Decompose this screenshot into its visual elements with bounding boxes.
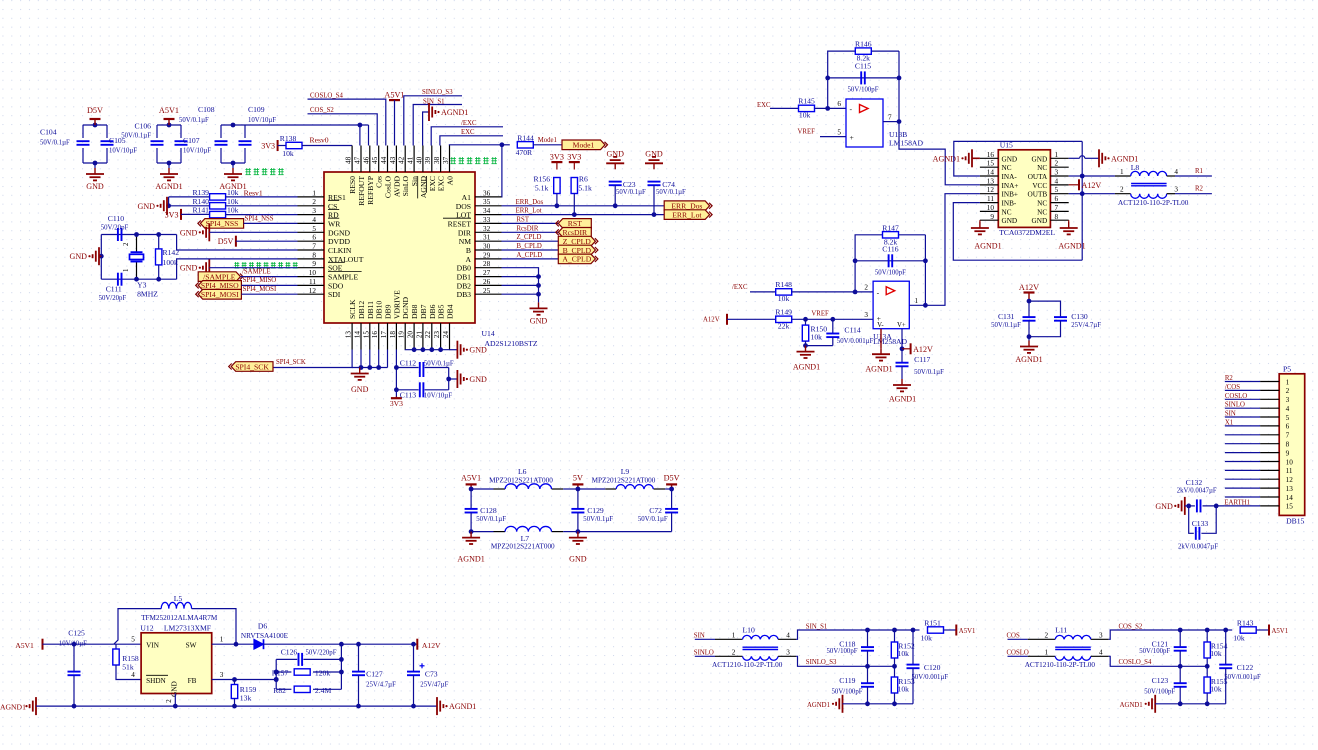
wire pin1 GND with hop bbox=[1069, 157, 1080, 159]
wire row3 bbox=[181, 213, 210, 215]
svg-text:34: 34 bbox=[483, 207, 491, 215]
wire bbox=[894, 630, 896, 642]
wire bbox=[578, 531, 672, 533]
svg-text:B_CPLD: B_CPLD bbox=[563, 246, 592, 255]
resistor R142 bbox=[156, 249, 162, 265]
L8 core bbox=[1131, 183, 1167, 185]
capacitor C109 bbox=[239, 140, 252, 142]
wire Resv0 net bbox=[302, 145, 352, 147]
svg-text:R2: R2 bbox=[1225, 375, 1234, 382]
junction bbox=[134, 232, 139, 237]
wire xtal top rail bbox=[101, 234, 176, 236]
svg-text:25: 25 bbox=[483, 287, 491, 295]
port flag RcsDIR bbox=[558, 228, 591, 238]
svg-text:COSLO_S4: COSLO_S4 bbox=[310, 93, 343, 100]
svg-text:10k: 10k bbox=[1210, 649, 1222, 658]
svg-text:7: 7 bbox=[1055, 204, 1059, 212]
svg-text:C104: C104 bbox=[40, 128, 57, 137]
junction bbox=[232, 677, 237, 682]
svg-text:GND: GND bbox=[180, 264, 198, 273]
wire L5 left bbox=[114, 609, 161, 645]
junction bbox=[394, 387, 399, 392]
U14 pin stubs right bbox=[475, 196, 502, 198]
svg-text:18: 18 bbox=[389, 331, 397, 339]
svg-text:12: 12 bbox=[309, 287, 317, 295]
wire bbox=[168, 163, 170, 168]
svg-text:ERR_Lot: ERR_Lot bbox=[672, 210, 702, 219]
svg-text:SPI4_SCK: SPI4_SCK bbox=[235, 362, 269, 371]
wire bbox=[695, 655, 715, 657]
wire bbox=[1206, 630, 1208, 642]
svg-text:50V/100pF: 50V/100pF bbox=[832, 688, 863, 695]
ground GND bottom bus bbox=[359, 368, 361, 374]
svg-text:12: 12 bbox=[1286, 476, 1294, 484]
wire bbox=[156, 148, 158, 163]
wire bbox=[232, 163, 234, 168]
svg-text:A0: A0 bbox=[446, 176, 455, 186]
svg-text:C108: C108 bbox=[198, 105, 215, 114]
junction bbox=[274, 677, 279, 682]
ground GND C74 bbox=[653, 163, 655, 169]
wire bbox=[313, 671, 341, 673]
junction bbox=[865, 628, 870, 633]
resistor R152 bbox=[891, 642, 897, 658]
junction bbox=[356, 704, 361, 709]
power A12V V+ bbox=[910, 343, 912, 354]
svg-text:50V/0.001µF: 50V/0.001µF bbox=[1224, 674, 1261, 681]
svg-text:R145: R145 bbox=[798, 97, 815, 106]
svg-text:C117: C117 bbox=[914, 355, 930, 364]
svg-text:2: 2 bbox=[864, 284, 868, 292]
ground GND (rows1-2) bbox=[166, 197, 168, 215]
junction bbox=[1178, 628, 1183, 633]
svg-text:L9: L9 bbox=[621, 467, 630, 476]
svg-text:AGND1: AGND1 bbox=[1058, 242, 1085, 251]
wire C116 row bbox=[855, 260, 925, 262]
wire bbox=[241, 284, 297, 286]
svg-text:15: 15 bbox=[1286, 503, 1294, 511]
resistor R156 bbox=[554, 178, 560, 194]
svg-text:SPI4_MISO: SPI4_MISO bbox=[243, 277, 277, 284]
svg-text:Cos: Cos bbox=[375, 176, 384, 188]
wire bbox=[653, 185, 655, 214]
svg-text:28: 28 bbox=[483, 260, 491, 268]
resistor R150 bbox=[802, 325, 808, 341]
svg-text:D5V: D5V bbox=[218, 237, 234, 246]
svg-text:R151: R151 bbox=[924, 619, 941, 628]
svg-text:GND: GND bbox=[1002, 155, 1018, 163]
svg-text:50V/0.1µF: 50V/0.1µF bbox=[914, 369, 944, 376]
capacitor C111 bbox=[117, 273, 119, 286]
svg-text:45: 45 bbox=[371, 156, 379, 164]
svg-text:9: 9 bbox=[990, 213, 994, 221]
svg-text:AGND1: AGND1 bbox=[793, 363, 820, 372]
junction bbox=[853, 258, 858, 263]
svg-text:INB+: INB+ bbox=[1002, 191, 1019, 199]
svg-text:EXC: EXC bbox=[428, 176, 437, 191]
svg-text:5.1k: 5.1k bbox=[578, 184, 592, 193]
svg-text:50V/20pF: 50V/20pF bbox=[99, 295, 127, 302]
wire bbox=[1207, 629, 1226, 631]
wire feedback top U13A bbox=[855, 235, 925, 292]
junction bbox=[1205, 701, 1210, 706]
green annotation fen-bian-lv-she-zhi bbox=[245, 168, 251, 170]
svg-text:AGND1: AGND1 bbox=[933, 154, 960, 163]
wire bbox=[425, 389, 449, 391]
svg-text:DB7: DB7 bbox=[419, 304, 428, 319]
wire bbox=[1256, 629, 1269, 631]
svg-text:RESET: RESET bbox=[448, 219, 472, 228]
svg-text:INA+: INA+ bbox=[1002, 182, 1019, 190]
wire bbox=[577, 489, 579, 509]
svg-text:23: 23 bbox=[433, 331, 441, 339]
junction bbox=[1186, 504, 1191, 509]
svg-text:C72: C72 bbox=[649, 506, 662, 515]
svg-text:10k: 10k bbox=[921, 634, 933, 643]
junction bbox=[134, 277, 139, 282]
wire to S1 bbox=[1109, 630, 1208, 639]
power A12V bar bbox=[726, 314, 728, 325]
svg-text:SINLO_S3: SINLO_S3 bbox=[422, 89, 453, 96]
svg-text:ACT1210-110-2P-TL00: ACT1210-110-2P-TL00 bbox=[1025, 661, 1096, 669]
svg-text:4: 4 bbox=[1099, 649, 1103, 657]
svg-text:10k: 10k bbox=[898, 685, 910, 694]
svg-text:2: 2 bbox=[312, 198, 316, 206]
power A5V1 filter bbox=[466, 483, 477, 485]
port flag B_CPLD bbox=[558, 245, 595, 255]
svg-text:V-: V- bbox=[877, 322, 884, 329]
svg-text:INB-: INB- bbox=[1002, 200, 1017, 208]
junction bbox=[469, 529, 474, 534]
wire bbox=[209, 267, 297, 269]
wire bbox=[671, 489, 673, 509]
junction bbox=[339, 642, 344, 647]
svg-text:10k: 10k bbox=[282, 149, 294, 158]
svg-text:C106: C106 bbox=[134, 122, 151, 131]
svg-text:D5V: D5V bbox=[664, 473, 680, 482]
wire REFOUT bbox=[359, 125, 361, 146]
junction bbox=[1178, 701, 1183, 706]
svg-text:50V/0.001µF: 50V/0.001µF bbox=[837, 338, 874, 345]
svg-text:C127: C127 bbox=[366, 670, 383, 679]
junction bbox=[358, 123, 363, 128]
wire right rail fbnet bbox=[340, 644, 342, 689]
svg-text:SHDN: SHDN bbox=[146, 677, 166, 685]
svg-text:NM: NM bbox=[459, 237, 472, 246]
svg-text:10: 10 bbox=[1286, 458, 1294, 466]
svg-text:120k: 120k bbox=[315, 669, 330, 678]
svg-text:2kV/0.0047µF: 2kV/0.0047µF bbox=[1177, 488, 1217, 495]
svg-text:13k: 13k bbox=[240, 694, 252, 703]
junction bbox=[897, 76, 902, 81]
svg-text:NC: NC bbox=[1002, 208, 1012, 216]
svg-text:GND: GND bbox=[530, 316, 548, 325]
wire bbox=[158, 265, 160, 279]
wire bbox=[1029, 301, 1061, 317]
svg-text:R138: R138 bbox=[280, 134, 297, 143]
port flag SPI4_MISO bbox=[198, 281, 241, 291]
svg-text:10V/10µF: 10V/10µF bbox=[109, 148, 137, 155]
junction bbox=[1205, 664, 1210, 669]
wire B_CPLD bbox=[502, 249, 559, 251]
svg-text:4: 4 bbox=[1286, 405, 1290, 413]
L11 pin stub bbox=[1091, 655, 1109, 657]
port flag /SAMPLE bbox=[198, 272, 240, 282]
wire bbox=[902, 348, 911, 350]
wire bbox=[168, 197, 170, 206]
inductor L6 bbox=[505, 484, 551, 489]
svg-text:8: 8 bbox=[1286, 441, 1290, 449]
wire bbox=[234, 680, 236, 686]
svg-text:MPZ2012S221AT000: MPZ2012S221AT000 bbox=[491, 542, 555, 550]
wire bbox=[156, 125, 158, 138]
svg-text:C125: C125 bbox=[68, 629, 85, 638]
power A5V1 bar R143 bbox=[1268, 625, 1270, 636]
capacitor C129 bbox=[571, 508, 584, 510]
junction bbox=[892, 701, 897, 706]
resistor R140 bbox=[210, 203, 226, 209]
inductor L9 bbox=[616, 485, 653, 489]
svg-text:ACT1210-110-2P-TL00: ACT1210-110-2P-TL00 bbox=[712, 661, 783, 669]
wire bbox=[73, 675, 75, 706]
inductor L5 bbox=[161, 602, 191, 608]
junction bbox=[923, 303, 928, 308]
svg-text:GND: GND bbox=[1032, 155, 1048, 163]
green annotation mode setting bbox=[450, 157, 456, 159]
wire VDRIVE bbox=[395, 350, 397, 390]
wire V+ bbox=[901, 329, 903, 349]
junction bbox=[359, 365, 364, 370]
svg-text:10V/10µF: 10V/10µF bbox=[183, 148, 211, 155]
svg-text:AGND1: AGND1 bbox=[155, 182, 182, 191]
svg-text:DGND: DGND bbox=[328, 228, 351, 237]
svg-text:C122: C122 bbox=[1237, 663, 1254, 672]
junction bbox=[500, 142, 505, 147]
svg-text:16: 16 bbox=[371, 331, 379, 339]
L10 core bbox=[743, 646, 779, 648]
svg-text:A12V: A12V bbox=[913, 345, 933, 354]
svg-text:U12: U12 bbox=[140, 624, 153, 633]
wire AGND1 rail bbox=[36, 705, 437, 707]
svg-text:MPZ2012S221AT000: MPZ2012S221AT000 bbox=[489, 477, 553, 485]
svg-text:DB5: DB5 bbox=[437, 304, 446, 319]
IC U15 TCA0372 body bbox=[998, 150, 1050, 228]
svg-text:6: 6 bbox=[312, 234, 316, 242]
resistor R158 bbox=[113, 649, 119, 665]
wire bbox=[1185, 505, 1195, 507]
svg-text:1: 1 bbox=[1286, 378, 1290, 386]
capacitor C126 bbox=[298, 653, 300, 666]
inductor L11 bottom winding bbox=[1055, 656, 1091, 660]
wire bbox=[180, 148, 182, 163]
svg-text:EXC: EXC bbox=[757, 102, 771, 109]
wire EXC bbox=[440, 136, 503, 146]
svg-text:R147: R147 bbox=[882, 223, 899, 232]
wire bbox=[413, 644, 415, 671]
junction bbox=[1178, 664, 1183, 669]
svg-text:R148: R148 bbox=[775, 280, 792, 289]
svg-text:SAMPLE: SAMPLE bbox=[328, 273, 358, 282]
capacitor C108 bbox=[215, 140, 228, 142]
svg-text:NC: NC bbox=[1037, 208, 1047, 216]
svg-text:4: 4 bbox=[131, 671, 135, 679]
svg-text:50V/0.1µF: 50V/0.1µF bbox=[40, 140, 70, 147]
svg-text:A12V: A12V bbox=[1082, 181, 1102, 190]
connector P5 DB15 body bbox=[1279, 374, 1305, 516]
resistor R143 bbox=[1240, 627, 1256, 633]
wire OUTA/OUTB vertical bbox=[1081, 141, 1083, 260]
wire to S3 bbox=[1109, 656, 1208, 666]
svg-text:10k: 10k bbox=[811, 333, 823, 342]
capacitor C120 bbox=[907, 664, 920, 666]
svg-text:3V3: 3V3 bbox=[165, 210, 179, 219]
svg-text:C74: C74 bbox=[662, 180, 675, 189]
svg-text:COSLO: COSLO bbox=[1007, 650, 1029, 657]
wire bbox=[82, 148, 84, 163]
svg-text:7: 7 bbox=[312, 243, 316, 251]
wire bbox=[750, 291, 776, 293]
wire cap-box bottom bbox=[83, 162, 107, 164]
junction bbox=[156, 277, 161, 282]
resistor R147 bbox=[883, 232, 899, 238]
wire bbox=[805, 341, 807, 346]
resistor R82 bbox=[294, 686, 310, 692]
svg-text:SINLO_S3: SINLO_S3 bbox=[806, 659, 837, 666]
capacitor C118 bbox=[861, 646, 874, 648]
wire bbox=[556, 194, 558, 206]
svg-text:29: 29 bbox=[483, 251, 491, 259]
junction bbox=[853, 290, 858, 295]
ground AGND1 left rail bbox=[35, 697, 37, 715]
svg-text:DOS: DOS bbox=[456, 202, 471, 211]
svg-text:6: 6 bbox=[1055, 195, 1059, 203]
svg-text:6: 6 bbox=[1286, 423, 1290, 431]
wire COSLO_S4 bbox=[308, 99, 386, 145]
svg-text:A5V1: A5V1 bbox=[959, 628, 976, 635]
wire bbox=[538, 294, 540, 302]
svg-text:8MHZ: 8MHZ bbox=[137, 290, 158, 299]
wire bbox=[792, 291, 873, 293]
wire bbox=[471, 488, 493, 490]
svg-text:SINLO: SINLO bbox=[694, 650, 714, 657]
junction bbox=[166, 203, 171, 208]
diode D6 NRVTSA4100E bbox=[254, 639, 264, 649]
svg-text:U14: U14 bbox=[482, 329, 495, 338]
wire cap-box top bbox=[157, 124, 181, 126]
svg-text:3: 3 bbox=[864, 311, 868, 319]
op-amp U13B bbox=[846, 99, 883, 147]
wire rail bbox=[1155, 703, 1226, 705]
U15 pin stubs bbox=[980, 157, 998, 159]
svg-text:VIN: VIN bbox=[146, 642, 160, 650]
svg-text:470R: 470R bbox=[516, 148, 533, 157]
capacitor C114 bbox=[826, 333, 839, 335]
svg-text:2kV/0.0047µF: 2kV/0.0047µF bbox=[1178, 544, 1218, 551]
svg-text:Y3: Y3 bbox=[137, 281, 147, 290]
junction bbox=[1080, 174, 1085, 179]
ground AGND1 pin1 bbox=[1098, 149, 1100, 167]
svg-text:10V/10µF: 10V/10µF bbox=[424, 393, 452, 400]
wire A12V node bbox=[264, 643, 418, 645]
L8 pin1 stub bbox=[1115, 175, 1131, 177]
svg-text:VDRIVE: VDRIVE bbox=[392, 290, 401, 319]
svg-text:36: 36 bbox=[483, 189, 491, 197]
wire bbox=[1203, 505, 1225, 507]
wire bbox=[209, 231, 297, 233]
power 3V3 row3 bbox=[180, 209, 182, 220]
ground AGND1 filter bbox=[470, 532, 472, 538]
svg-text:48: 48 bbox=[345, 156, 353, 164]
junction bbox=[911, 628, 916, 633]
wire V- down bbox=[880, 329, 882, 349]
svg-text:D5V: D5V bbox=[87, 106, 103, 115]
wire DGND/DB8-DB4 bus bbox=[405, 349, 449, 351]
wire bbox=[1206, 693, 1208, 704]
capacitor C132 bbox=[1196, 499, 1198, 512]
capacitor C116 bbox=[888, 254, 890, 267]
svg-text:4: 4 bbox=[312, 216, 316, 224]
wire bbox=[944, 629, 957, 631]
port flag SPI4_NSS bbox=[200, 219, 243, 229]
svg-text:L8: L8 bbox=[1131, 163, 1140, 172]
power D5V row6 bbox=[235, 236, 237, 247]
junction bbox=[923, 258, 928, 263]
svg-text:19: 19 bbox=[398, 331, 406, 339]
wire bbox=[395, 390, 397, 397]
svg-text:AD2S1210BSTZ: AD2S1210BSTZ bbox=[485, 339, 538, 348]
svg-text:C115: C115 bbox=[855, 62, 871, 71]
svg-text:DB4: DB4 bbox=[446, 304, 455, 319]
svg-text:2: 2 bbox=[1055, 160, 1059, 168]
capacitor C72 bbox=[665, 508, 678, 510]
svg-text:ACT1210-110-2P-TL00: ACT1210-110-2P-TL00 bbox=[1118, 199, 1189, 207]
svg-text:SDI: SDI bbox=[328, 290, 341, 299]
power 3V3 R138 bbox=[277, 140, 279, 151]
junction bbox=[446, 377, 451, 382]
wire bbox=[832, 337, 834, 346]
wire AVDD bbox=[394, 100, 396, 145]
resistor R146 bbox=[855, 48, 871, 54]
ground AGND1 C131 bbox=[1028, 341, 1030, 347]
svg-text:A5V1: A5V1 bbox=[159, 106, 179, 115]
svg-text:ERR_Lot: ERR_Lot bbox=[516, 208, 542, 215]
svg-text:+: + bbox=[850, 133, 854, 142]
wire bbox=[396, 367, 418, 369]
svg-text:1: 1 bbox=[1055, 151, 1059, 159]
svg-text:Z_CPLD: Z_CPLD bbox=[517, 234, 542, 241]
wire bbox=[901, 349, 903, 363]
inductor L7 bbox=[505, 526, 551, 531]
svg-text:C131: C131 bbox=[998, 312, 1015, 321]
svg-text:Resv1: Resv1 bbox=[244, 189, 263, 198]
svg-text:V+: V+ bbox=[897, 322, 906, 329]
L8 pin2 stub bbox=[1115, 193, 1131, 195]
wire row1 bbox=[169, 196, 210, 198]
junction bbox=[72, 642, 77, 647]
wire R2 bbox=[1175, 193, 1212, 195]
wire OUTA bbox=[1069, 175, 1083, 177]
svg-text:8: 8 bbox=[312, 251, 316, 259]
port flag SPI4_SCK bbox=[231, 362, 273, 372]
svg-text:RES0: RES0 bbox=[348, 176, 357, 194]
ground GND row5 bbox=[208, 223, 210, 241]
port flag ERR_Dos bbox=[664, 201, 709, 211]
wire bbox=[883, 121, 899, 123]
wire rail bbox=[843, 703, 914, 705]
svg-text:X1: X1 bbox=[1225, 419, 1233, 426]
svg-text:P5: P5 bbox=[1283, 365, 1291, 374]
svg-text:DGND: DGND bbox=[401, 296, 410, 319]
